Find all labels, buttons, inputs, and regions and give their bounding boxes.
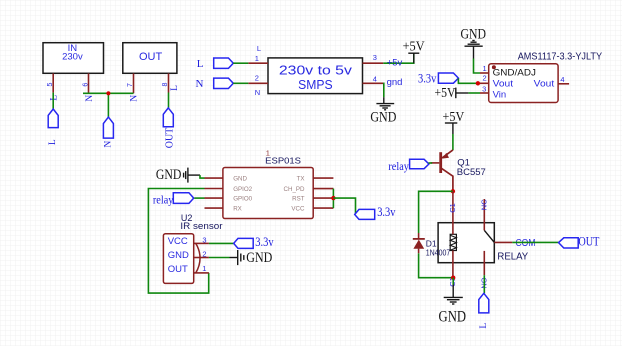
svg-text:L: L: [48, 139, 58, 145]
relay K1 RELAY: [438, 223, 528, 263]
svg-text:GND: GND: [233, 176, 247, 183]
svg-text:1: 1: [202, 264, 206, 273]
wire relay flag to GPIO0: [194, 197, 204, 199]
wire relay flag to base: [429, 162, 433, 164]
svg-text:TX: TX: [297, 176, 305, 183]
svg-text:relay: relay: [388, 161, 409, 173]
diode D1 1N4007: [413, 233, 425, 253]
svg-text:1: 1: [255, 54, 259, 63]
pin GPIO2 of ESP01S: [205, 188, 223, 190]
pin 1 (L) of SMPS: [248, 44, 268, 63]
svg-text:OUT: OUT: [165, 128, 176, 149]
ground GND (at U2 pin 2, rotated): [230, 250, 273, 266]
sensor U2 IR sensor: [163, 213, 222, 284]
wire CH_PD RST VCC tie: [332, 189, 334, 209]
wire pin 3 to +5V: [383, 53, 414, 63]
net flag L (under NO): [479, 293, 489, 328]
wire pin 3 to 3.3v flag: [209, 242, 234, 244]
transistor Q1 BC557: [431, 150, 486, 191]
pin 7 of OUT: [127, 73, 140, 101]
power +5V (above SMPS): [403, 38, 425, 63]
svg-text:3.3v: 3.3v: [377, 205, 396, 219]
svg-text:OUT: OUT: [168, 264, 188, 275]
pin 2 (N) of SMPS: [248, 73, 268, 97]
junction dot at collector: [451, 189, 455, 193]
svg-text:2: 2: [202, 249, 206, 258]
wire GPIO2 to U2 OUT (long loop): [148, 189, 208, 294]
net flag N into SMPS: [196, 78, 234, 90]
svg-text:GPIO2: GPIO2: [233, 186, 252, 193]
power +5V (above Q1): [443, 109, 465, 134]
svg-text:GND: GND: [156, 167, 182, 183]
wire GND to pin 1: [474, 59, 481, 74]
wire COM to OUT flag: [512, 241, 558, 243]
svg-text:6: 6: [82, 83, 89, 87]
svg-text:RST: RST: [292, 196, 305, 203]
svg-text:GND: GND: [370, 110, 396, 126]
net flag 3.3v (right of ESP01S): [355, 205, 396, 219]
pin 1 (OUT) of U2: [194, 264, 209, 273]
pin VCC of ESP01S: [313, 207, 333, 209]
svg-text:3: 3: [202, 235, 206, 244]
net flag OUT (under pin 8): [163, 108, 175, 148]
svg-text:2: 2: [255, 73, 259, 82]
svg-text:4: 4: [373, 74, 377, 83]
svg-text:3: 3: [482, 85, 486, 94]
coil of relay: [450, 234, 456, 250]
svg-text:N: N: [255, 88, 260, 97]
wire NO to L flag: [483, 275, 485, 293]
junction dot ground node: [451, 276, 455, 280]
svg-text:gnd: gnd: [387, 77, 403, 88]
svg-text:230v: 230v: [62, 52, 83, 63]
net flag L into SMPS: [197, 58, 234, 70]
pin 6 of IN: [82, 73, 95, 101]
module U? 230v to 5v SMPS: [268, 58, 363, 94]
svg-text:CH_PD: CH_PD: [284, 186, 306, 193]
svg-text:Vin: Vin: [493, 89, 507, 100]
svg-text:Vout: Vout: [493, 79, 514, 90]
module ESP01S: [223, 149, 313, 219]
svg-text:L: L: [170, 85, 180, 91]
wire junction to N flag: [107, 93, 109, 117]
wire junction to ground: [452, 278, 454, 285]
svg-text:GPIO0: GPIO0: [233, 196, 252, 203]
wire diode bottom to ground junction: [419, 253, 454, 278]
pin 2 (GND) of U2: [194, 249, 209, 258]
ground GND (under relay): [439, 285, 467, 326]
wire 3.3v flag to pin 2: [458, 78, 480, 83]
svg-text:N: N: [104, 141, 114, 148]
wire N flag to pin 2: [233, 82, 248, 84]
ground GND (under SMPS): [370, 97, 396, 126]
wire GND to pin GND: [200, 175, 205, 178]
pin CH_PD of ESP01S: [313, 188, 333, 190]
wire pin 4 to ground: [382, 83, 385, 97]
svg-text:3: 3: [373, 53, 377, 62]
wire pin8 to L flag: [168, 93, 170, 108]
regulator U? AMS1117-3.3: [489, 51, 602, 103]
wire +5V to emitter: [452, 134, 454, 150]
pin 1 of AMS1117: [480, 64, 489, 73]
svg-text:1N4007: 1N4007: [426, 247, 451, 257]
svg-text:GND: GND: [439, 308, 467, 325]
diode D1 value labels: [426, 239, 451, 258]
pin GND of ESP01S: [205, 177, 223, 179]
net flag N (under junction): [103, 117, 113, 148]
pin GPIO0 of ESP01S: [205, 197, 223, 199]
svg-text:GND: GND: [168, 250, 189, 261]
svg-text:+5V: +5V: [403, 38, 425, 53]
net flag relay at Q1 base: [388, 159, 429, 173]
wire RST to 3.3v flag: [333, 198, 355, 214]
pin 4 (gnd) of SMPS: [363, 74, 403, 88]
svg-text:L: L: [197, 58, 204, 70]
svg-text:3.3v: 3.3v: [255, 235, 274, 249]
svg-text:4: 4: [560, 75, 564, 84]
svg-text:1: 1: [483, 64, 487, 73]
svg-text:+5v: +5v: [387, 58, 403, 69]
pin 8 of OUT: [162, 73, 180, 92]
svg-text:relay: relay: [153, 194, 174, 206]
ground GND (above AMS1117, inverted): [461, 27, 487, 59]
pin 5 of IN: [47, 73, 60, 100]
svg-text:L: L: [257, 44, 261, 53]
svg-text:OUT: OUT: [139, 51, 163, 63]
net flag 3.3v (at U2 VCC): [234, 235, 275, 249]
connector OUT (switched output): [123, 43, 177, 74]
power +5V (rotated, into pin 3): [435, 85, 469, 100]
wire L flag to pin 1: [233, 62, 248, 64]
svg-text:NC: NC: [479, 199, 488, 210]
svg-text:ESP01S: ESP01S: [265, 156, 301, 166]
svg-text:L: L: [479, 323, 489, 329]
net flag OUT (at COM): [559, 234, 600, 248]
svg-text:Vout: Vout: [534, 79, 555, 90]
net flag relay at GPIO0: [153, 193, 194, 207]
wire collector to diode top: [419, 191, 453, 233]
junction dot at pin 2: [476, 81, 480, 85]
pin 3 (+5v) of SMPS: [363, 53, 384, 63]
pin COM of relay: [494, 238, 535, 249]
svg-text:N: N: [130, 95, 140, 102]
pin 3 of AMS1117: [480, 85, 489, 94]
junction dot N bus: [106, 91, 110, 95]
ground GND (left of ESP01S, rotated): [156, 167, 200, 183]
svg-text:AMS1117-3.3-YJLTY: AMS1117-3.3-YJLTY: [518, 51, 602, 63]
svg-text:8: 8: [162, 83, 169, 87]
pin 3 (VCC) of U2: [194, 235, 209, 244]
pin 2 of AMS1117: [480, 74, 489, 84]
svg-text:N: N: [196, 78, 204, 90]
svg-text:VCC: VCC: [168, 236, 188, 247]
svg-text:RELAY: RELAY: [497, 252, 528, 263]
svg-text:SMPS: SMPS: [298, 77, 333, 92]
svg-text:VCC: VCC: [291, 206, 305, 213]
svg-text:C1: C1: [448, 203, 457, 213]
pin C1 top of relay: [448, 191, 457, 234]
pin 4 of AMS1117: [558, 75, 569, 84]
svg-text:2: 2: [483, 74, 487, 83]
svg-text:230v to 5v: 230v to 5v: [279, 63, 353, 78]
pin C1 bottom of relay: [448, 251, 457, 287]
net flag 3.3v to pin 2: [418, 72, 458, 86]
pin NC of relay: [479, 199, 488, 230]
svg-text:3.3v: 3.3v: [418, 72, 437, 86]
svg-text:7: 7: [127, 83, 134, 87]
svg-text:GND: GND: [246, 250, 272, 266]
junction dot at RST: [331, 196, 335, 200]
wire N bus under boxes: [83, 92, 134, 94]
svg-text:OUT: OUT: [578, 234, 599, 248]
svg-text:L: L: [50, 95, 60, 101]
svg-text:N: N: [85, 95, 95, 102]
wire pin 2 to ground: [209, 257, 230, 259]
svg-text:5: 5: [47, 82, 54, 86]
pin RST of ESP01S: [313, 197, 333, 199]
pin RX of ESP01S: [205, 207, 223, 209]
svg-text:+5V: +5V: [435, 85, 456, 100]
net flag L (under pin 5): [48, 109, 58, 145]
switch arm of relay: [484, 230, 494, 242]
connector IN (230v input): [43, 43, 104, 74]
pin NO of relay: [479, 251, 488, 289]
svg-text:+5V: +5V: [443, 109, 465, 124]
pin TX of ESP01S: [313, 177, 333, 179]
wire +5V to pin 3: [468, 92, 480, 94]
svg-text:BC557: BC557: [457, 167, 486, 178]
svg-text:GND/ADJ: GND/ADJ: [493, 68, 537, 79]
wire pin5 to L flag: [52, 93, 54, 109]
svg-text:RX: RX: [233, 206, 242, 213]
svg-text:COM: COM: [516, 238, 536, 249]
svg-text:IR sensor: IR sensor: [180, 221, 222, 231]
